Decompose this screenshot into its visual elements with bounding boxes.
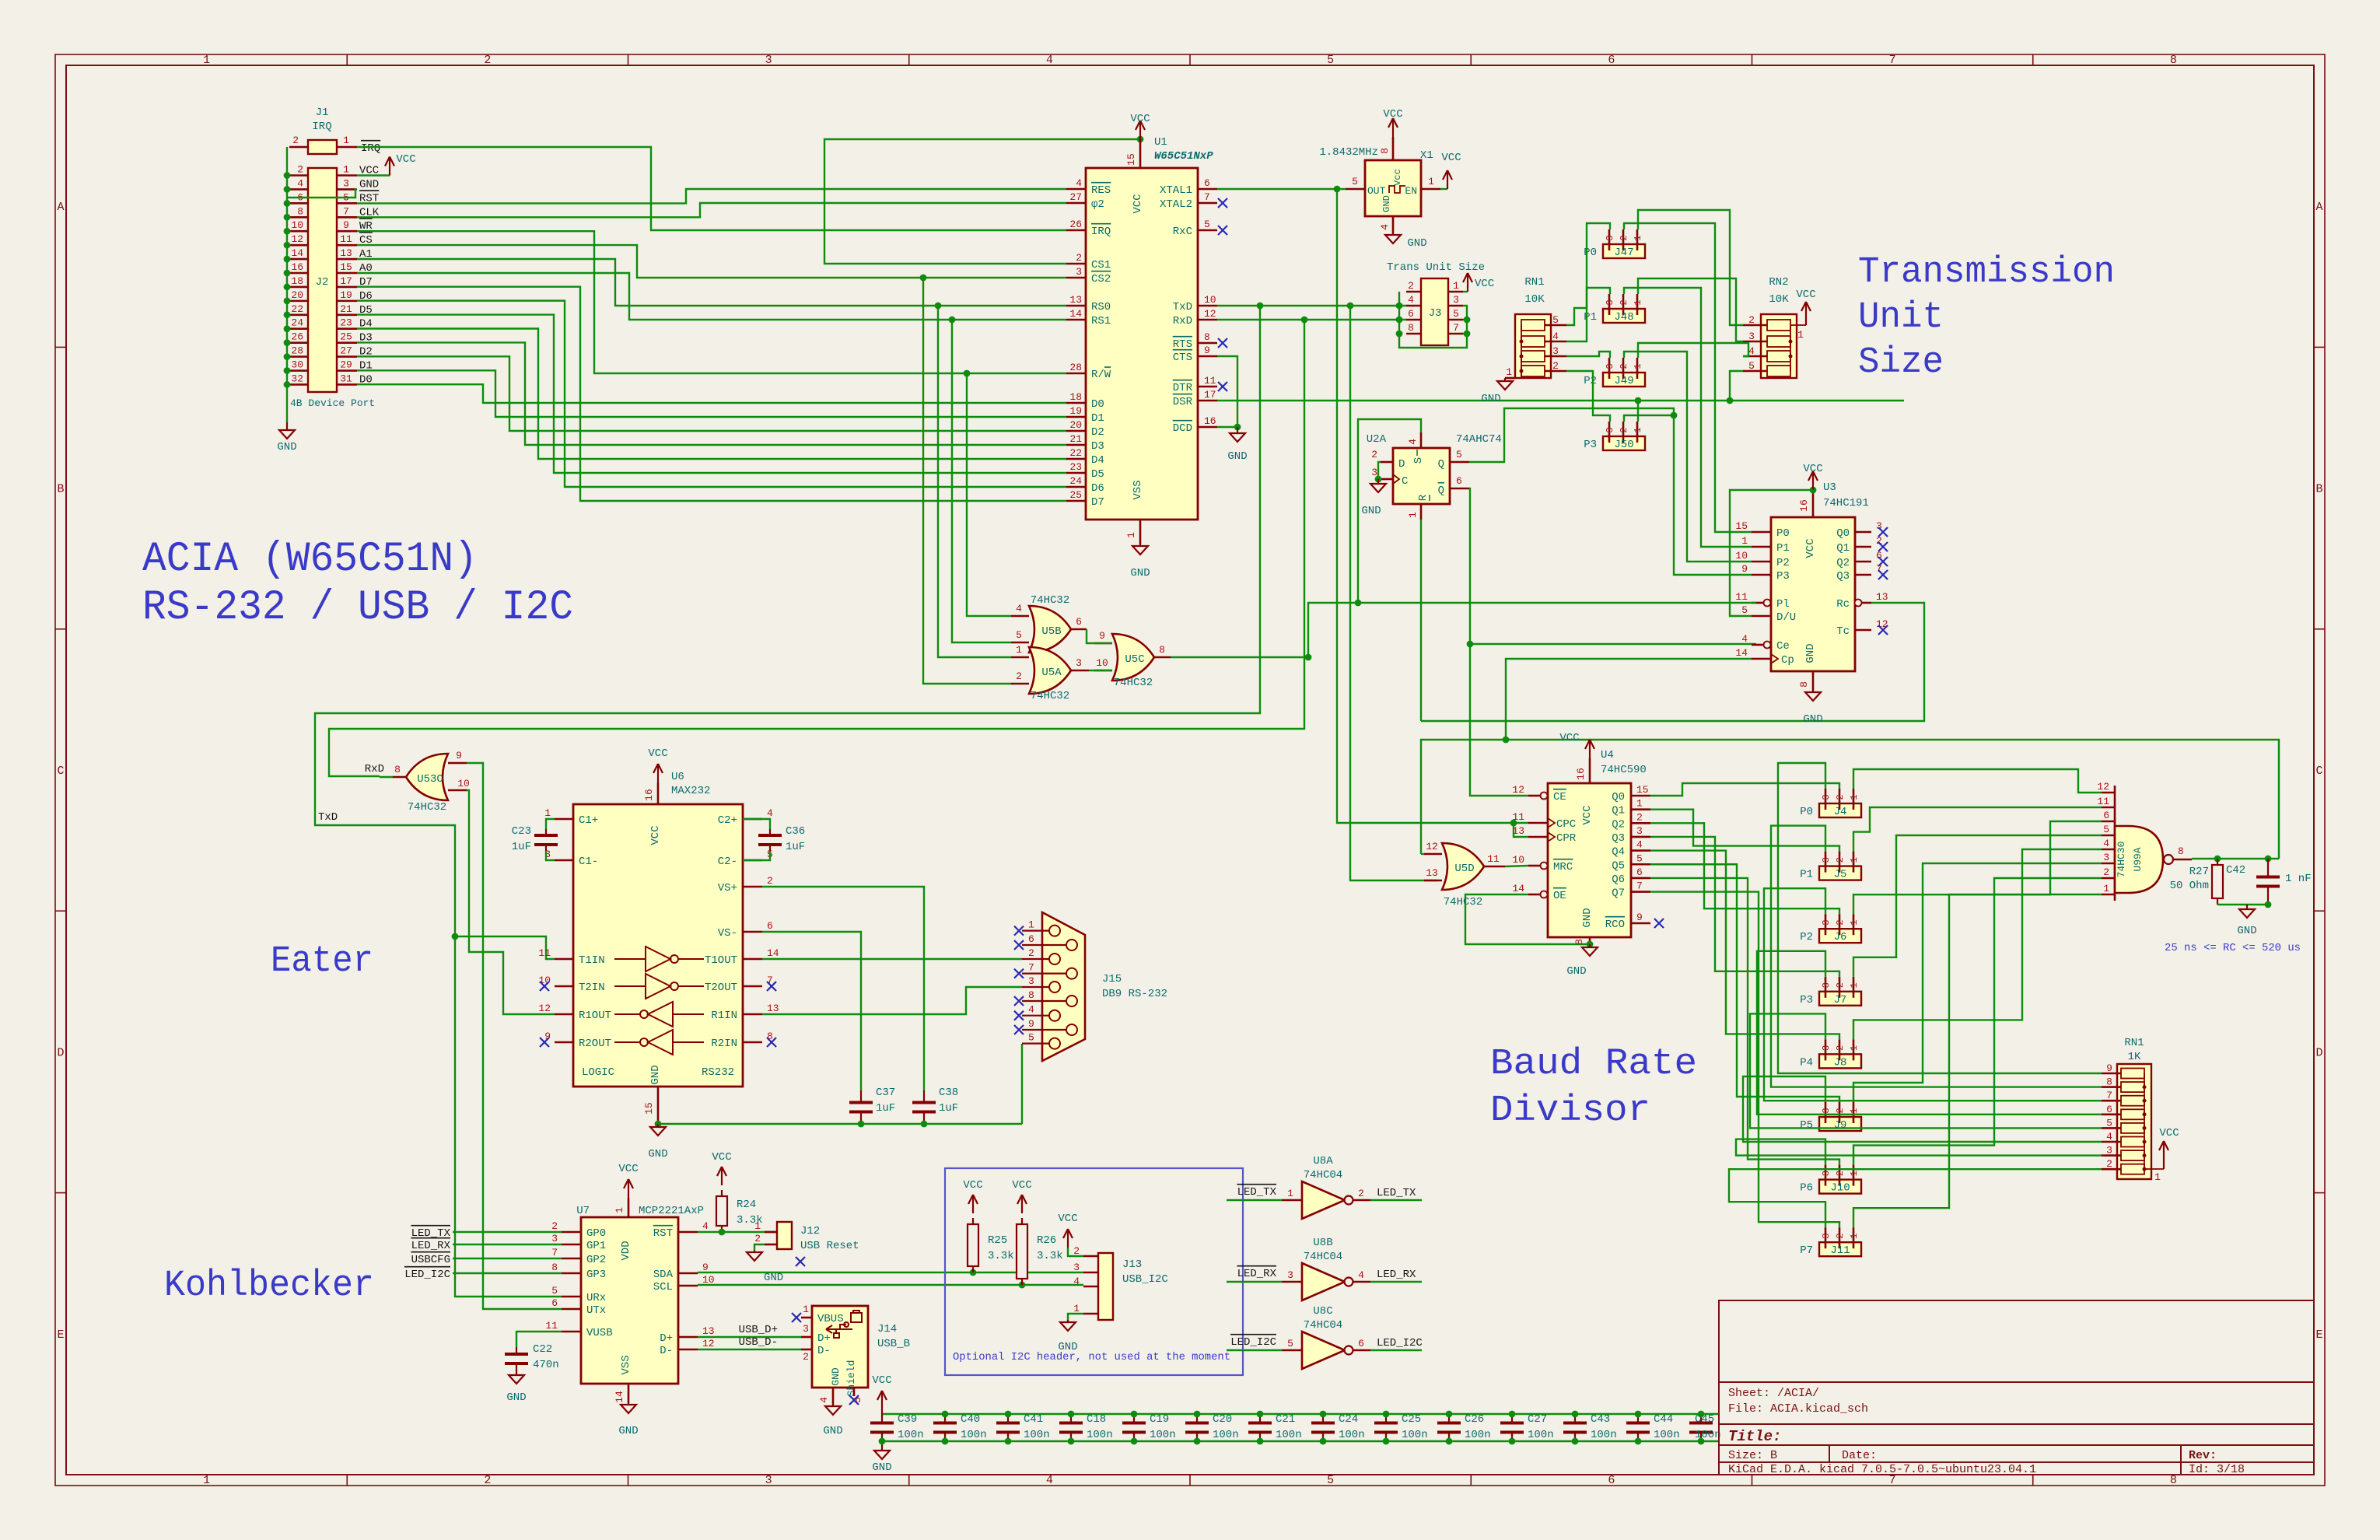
U99A pin8 output (2173, 859, 2192, 861)
svg-text:RN2: RN2 (1769, 276, 1788, 289)
svg-text:26: 26 (1069, 219, 1082, 230)
U5A pin1 (1011, 656, 1029, 659)
U2A pin1 R bottom (1420, 504, 1423, 520)
svg-text:GND: GND (506, 1391, 526, 1404)
svg-text:9: 9 (343, 219, 349, 231)
U7 pin 9 SDA (678, 1272, 698, 1275)
svg-text:1: 1 (803, 1304, 809, 1315)
svg-text:8: 8 (1379, 148, 1391, 154)
svg-text:4: 4 (1407, 439, 1419, 445)
svg-text:1: 1 (1073, 1303, 1080, 1314)
svg-text:J12: J12 (800, 1225, 820, 1237)
U99A pin 5 (2102, 835, 2115, 837)
svg-text:VCC: VCC (1796, 289, 1815, 301)
wire U5C output to U3 Pl (1171, 656, 1308, 658)
U4 pin 13 CPR (1528, 836, 1548, 838)
svg-text:LED_RX: LED_RX (411, 1240, 451, 1252)
wire J11 pin3 to RN1 1K (1729, 1169, 2102, 1227)
wire U53C pin9 from UTx (467, 763, 562, 1309)
U2A Qbar down to U3 Ce and U4 CE (1469, 488, 1528, 796)
RN1 1K pin1 to VCC (2144, 1168, 2164, 1170)
svg-text:7: 7 (343, 205, 349, 217)
svg-text:DCD: DCD (1173, 422, 1192, 435)
svg-text:RS232: RS232 (702, 1066, 734, 1079)
wire RN1 pin3 to J49 pin3 (1566, 352, 1610, 358)
wire J8 pin3 to RN1 1K (1750, 1013, 2102, 1128)
svg-text:Q: Q (1438, 458, 1444, 471)
J2 ground bus wire (left) (286, 147, 288, 422)
U8C output pin 6 (1353, 1349, 1370, 1352)
svg-text:3: 3 (1636, 825, 1643, 837)
wire U4 Q5 to J9 pin2 (1650, 864, 1839, 1102)
svg-text:Q0: Q0 (1836, 527, 1850, 540)
svg-text:C41: C41 (1024, 1413, 1043, 1426)
svg-text:4: 4 (1552, 331, 1559, 342)
wire U3 Ce from Qbar net (1470, 643, 1756, 645)
J2 pin 3 GND (right) (337, 188, 357, 191)
capacitor C21 100n (1259, 1414, 1261, 1423)
wire RST to U1 RES (357, 189, 1066, 203)
svg-text:GND: GND (359, 178, 379, 191)
wire J7 pin1 to U99A input (1853, 835, 2102, 977)
svg-text:11: 11 (545, 1320, 558, 1332)
blue box optional I2C header (945, 1168, 1243, 1375)
svg-text:21: 21 (1069, 433, 1082, 445)
svg-text:LED_I2C: LED_I2C (404, 1269, 450, 1281)
J3 pin 4 (left) (1406, 305, 1421, 307)
svg-text:Size: B: Size: B (1728, 1449, 1777, 1462)
svg-text:J47: J47 (1614, 247, 1633, 259)
jumper J48 P1 (1603, 309, 1645, 323)
U99A pin 3 (2102, 863, 2115, 865)
J15 pin 5 (1022, 1042, 1049, 1044)
svg-text:32: 32 (291, 373, 303, 384)
svg-text:J3: J3 (1429, 307, 1442, 320)
U3 pin 3 Q0 (1855, 531, 1871, 534)
U99A pin 6 (2102, 821, 2115, 823)
svg-text:9: 9 (456, 750, 462, 761)
svg-text:2: 2 (551, 1220, 558, 1232)
svg-text:1: 1 (1849, 920, 1860, 926)
svg-text:4: 4 (1379, 224, 1391, 230)
svg-text:Q2: Q2 (1836, 557, 1850, 569)
svg-text:2: 2 (1619, 427, 1629, 432)
svg-text:100n: 100n (1402, 1429, 1428, 1441)
svg-text:2: 2 (297, 164, 303, 176)
IC U7 MCP2221AxP (581, 1217, 678, 1384)
svg-text:12: 12 (702, 1338, 715, 1349)
svg-text:5: 5 (1287, 1338, 1293, 1349)
capacitor C40 100n (944, 1414, 946, 1423)
svg-text:25: 25 (340, 331, 352, 343)
svg-text:6: 6 (1636, 866, 1643, 878)
U7 pin 5 URx (562, 1296, 581, 1298)
J2 pin 13 A1 (right) (337, 258, 357, 261)
svg-text:P0: P0 (1776, 527, 1790, 540)
svg-text:10: 10 (1512, 854, 1524, 866)
svg-text:15: 15 (1735, 520, 1748, 532)
U4 pin Q2 (1631, 822, 1650, 824)
svg-text:6: 6 (1608, 54, 1615, 67)
wire J47 pin1 to RN2 pin2 (1638, 210, 1743, 325)
J2 pin 4 (left) (289, 188, 308, 191)
svg-text:URx: URx (586, 1292, 606, 1304)
svg-text:3: 3 (1287, 1269, 1293, 1281)
connector J12 USB Reset (777, 1222, 792, 1249)
svg-text:14: 14 (767, 947, 779, 959)
svg-text:3: 3 (1076, 657, 1082, 669)
svg-text:C1+: C1+ (579, 814, 598, 827)
svg-text:Ce: Ce (1776, 640, 1790, 653)
svg-text:VCC: VCC (648, 747, 667, 760)
jumper J47 P0 (1603, 244, 1645, 258)
svg-text:D1: D1 (1091, 412, 1104, 425)
svg-text:1: 1 (1849, 982, 1860, 988)
svg-text:P4: P4 (1800, 1056, 1813, 1069)
wire U5D out to U4 MRC (1505, 866, 1528, 866)
svg-text:11: 11 (1735, 591, 1748, 603)
wire CTS to DCD/GND (1217, 356, 1237, 427)
svg-text:C45: C45 (1695, 1413, 1714, 1426)
svg-text:R26: R26 (1037, 1234, 1056, 1247)
svg-text:1: 1 (1849, 1045, 1860, 1051)
svg-text:D: D (57, 1046, 64, 1059)
svg-text:LED_TX: LED_TX (1377, 1187, 1416, 1199)
svg-text:1uF: 1uF (939, 1102, 958, 1115)
svg-text:8: 8 (2106, 1076, 2112, 1088)
wire U4 Q4 to J8 pin2 (1650, 851, 1839, 1040)
wire J4 pin3 to RN1 1K (1778, 763, 2102, 1073)
svg-text:R: R (1417, 494, 1430, 501)
title block outline (1719, 1300, 2314, 1475)
svg-text:VDD: VDD (620, 1241, 632, 1260)
U4 pin 14 OE (1528, 894, 1541, 896)
svg-text:U5B: U5B (1041, 625, 1061, 638)
svg-text:1: 1 (1506, 366, 1512, 378)
svg-text:2: 2 (1835, 920, 1846, 926)
svg-text:8: 8 (1159, 644, 1165, 656)
svg-text:25 ns <= RC <= 520 us: 25 ns <= RC <= 520 us (2165, 942, 2301, 954)
svg-text:Divisor: Divisor (1490, 1090, 1650, 1132)
svg-text:19: 19 (1069, 405, 1082, 417)
svg-text:1: 1 (2103, 883, 2109, 894)
svg-text:KiCad E.D.A. kicad 7.0.5-7.0.: KiCad E.D.A. kicad 7.0.5-7.0.5~ubuntu23.… (1728, 1463, 2036, 1476)
svg-text:24: 24 (1069, 475, 1082, 487)
counter U4 74HC590 (1548, 783, 1631, 937)
U1 pin 19 D1 (1066, 416, 1086, 418)
J2 pin 31 D0 (right) (337, 383, 357, 386)
U3 GND pin8 (1812, 671, 1815, 691)
svg-text:D3: D3 (1091, 440, 1104, 453)
X1 pin 5 OUT (1346, 188, 1365, 191)
capacitor C38 1uF (923, 1090, 925, 1103)
svg-text:GND: GND (1566, 965, 1586, 978)
svg-text:2: 2 (1835, 1108, 1846, 1113)
svg-text:U8A: U8A (1313, 1155, 1333, 1167)
J15 pin 7 (1022, 972, 1066, 974)
U2A S/R net to Pl wire (1358, 419, 1421, 603)
svg-text:6: 6 (1456, 475, 1462, 487)
svg-text:CS1: CS1 (1091, 259, 1111, 271)
svg-text:3: 3 (1605, 299, 1615, 305)
svg-text:6: 6 (767, 920, 773, 932)
svg-text:VCC: VCC (396, 153, 415, 166)
svg-text:Transmission: Transmission (1858, 252, 2115, 293)
wire U7 RST to J12 (698, 1231, 777, 1233)
svg-text:10: 10 (1735, 550, 1748, 562)
wire J5 pin3 to RN1 1K (1771, 826, 2102, 1087)
svg-text:10: 10 (702, 1274, 715, 1286)
U8B output pin 4 (1353, 1281, 1370, 1283)
R27/C42 ground rail (2217, 904, 2268, 905)
J14 USB icon (826, 1322, 852, 1338)
svg-text:C26: C26 (1465, 1413, 1484, 1426)
svg-text:1K: 1K (2128, 1051, 2141, 1063)
connector J15 DB9 RS-232 (1042, 912, 1085, 1061)
U53C pin9 (448, 762, 467, 765)
svg-text:GND: GND (1381, 195, 1392, 212)
svg-text:Date:: Date: (1842, 1449, 1877, 1462)
svg-text:MCP2221AxP: MCP2221AxP (639, 1205, 704, 1217)
wire clock out net to U5D pin12 and U3 Cp (1421, 853, 1424, 855)
svg-text:12: 12 (1204, 308, 1216, 320)
svg-text:CTS: CTS (1173, 352, 1192, 364)
svg-text:J9: J9 (1834, 1119, 1847, 1132)
J15 pin 2 (1022, 958, 1049, 960)
svg-text:11: 11 (2097, 796, 2109, 807)
svg-text:D7: D7 (1091, 496, 1104, 509)
U3 pin 4 Ce (1752, 644, 1764, 646)
svg-text:Optional I2C header, not used: Optional I2C header, not used at the mom… (953, 1351, 1230, 1363)
svg-text:LED_RX: LED_RX (1237, 1268, 1277, 1280)
svg-text:GP2: GP2 (586, 1254, 606, 1266)
svg-text:2: 2 (1076, 252, 1082, 264)
svg-text:14: 14 (614, 1391, 625, 1403)
svg-text:4: 4 (702, 1220, 709, 1232)
svg-text:C37: C37 (876, 1087, 895, 1099)
svg-text:5: 5 (1748, 360, 1755, 372)
svg-text:E: E (2315, 1328, 2322, 1342)
svg-text:9: 9 (1741, 563, 1748, 575)
svg-text:P2: P2 (1800, 931, 1813, 943)
svg-text:1: 1 (1125, 532, 1137, 538)
svg-text:4: 4 (2106, 1131, 2112, 1143)
U1 pin 28 R/W (1066, 373, 1086, 375)
wire CS to U1 CS2 (357, 245, 1066, 278)
svg-text:OUT: OUT (1367, 185, 1386, 197)
U7 pin 13 D+ (678, 1336, 698, 1339)
wire RxD from U1 pin12 to J3 (1217, 319, 1406, 320)
svg-text:VSS: VSS (620, 1355, 632, 1374)
svg-text:1 nF: 1 nF (2285, 873, 2312, 885)
U1 pin 22 D4 (1066, 458, 1086, 460)
U7 pin 4 RST (678, 1231, 698, 1234)
svg-text:C21: C21 (1276, 1413, 1295, 1426)
svg-text:3: 3 (2103, 852, 2109, 863)
svg-text:USB_D+: USB_D+ (739, 1324, 778, 1336)
wire U99A output to R27/C42 (2192, 858, 2279, 859)
U6 pin 13 R1IN (743, 1013, 762, 1016)
svg-text:B: B (2315, 483, 2322, 496)
U6 VCC pin16 (657, 782, 660, 804)
svg-text:VCC: VCC (1130, 113, 1150, 125)
or-gate U5B 74HC32 (1029, 606, 1071, 653)
svg-text:Q7: Q7 (1612, 887, 1625, 900)
IC U1 W65C51NxP ACIA (1086, 168, 1198, 520)
wire U4 Q6 to J10 pin2 (1650, 878, 1839, 1165)
wire U4 Q3 to J7 pin2 (1650, 837, 1839, 977)
svg-text:CPR: CPR (1556, 832, 1577, 845)
svg-text:USB Reset: USB Reset (800, 1240, 859, 1252)
J2 pin 30 (left) (289, 369, 308, 372)
svg-text:100n: 100n (1339, 1429, 1365, 1441)
svg-text:T1IN: T1IN (579, 954, 605, 967)
wire J9 pin3 to RN1 1K (1743, 1076, 2102, 1142)
svg-text:GP3: GP3 (586, 1269, 606, 1281)
svg-text:GND: GND (764, 1272, 783, 1284)
RN1 pin1 to GND (1521, 371, 1522, 378)
U3 pin 13 Rc (1862, 602, 1871, 604)
U1 pin 24 D6 (1066, 486, 1086, 488)
svg-text:J13: J13 (1122, 1258, 1142, 1271)
svg-text:MAX232: MAX232 (671, 785, 710, 797)
U1 pin 9 CTS (1198, 355, 1217, 358)
capacitor C25 100n (1385, 1414, 1387, 1423)
svg-text:8: 8 (1798, 681, 1810, 688)
J2 pin 26 (left) (289, 341, 308, 344)
svg-text:CS2: CS2 (1091, 273, 1111, 285)
svg-text:12: 12 (1426, 841, 1438, 852)
svg-text:Trans Unit Size: Trans Unit Size (1387, 261, 1485, 274)
svg-text:12: 12 (1512, 784, 1524, 796)
svg-text:3.3k: 3.3k (1037, 1250, 1063, 1262)
svg-text:VCC: VCC (1132, 194, 1144, 213)
svg-text:U8C: U8C (1313, 1305, 1332, 1318)
svg-text:2: 2 (484, 54, 491, 67)
svg-text:4: 4 (2103, 838, 2109, 849)
svg-text:P2: P2 (1584, 375, 1597, 387)
svg-text:C36: C36 (786, 825, 805, 838)
svg-text:VCC: VCC (1581, 805, 1594, 824)
svg-text:3: 3 (1821, 920, 1832, 926)
svg-text:C25: C25 (1402, 1413, 1421, 1426)
svg-text:26: 26 (291, 331, 303, 343)
svg-text:3: 3 (1748, 331, 1755, 342)
svg-text:15: 15 (1636, 784, 1649, 796)
svg-text:U2A: U2A (1367, 433, 1387, 446)
U3 pin 7 Q3 (1855, 574, 1871, 576)
svg-text:23: 23 (340, 317, 352, 329)
U4 GND pin8 and OE wire (1589, 937, 1591, 944)
svg-text:4: 4 (1028, 1004, 1034, 1016)
TxD branch down to U7 URx (455, 936, 562, 1297)
svg-text:Q5: Q5 (1612, 859, 1625, 872)
svg-text:USB_B: USB_B (877, 1338, 910, 1350)
svg-text:22: 22 (291, 303, 303, 315)
svg-text:C: C (57, 765, 64, 778)
wire RS0 net to U5A pin1 (938, 306, 1011, 657)
RxD vertical down to U53C output (329, 320, 1304, 776)
svg-text:LED_I2C: LED_I2C (1230, 1336, 1276, 1349)
svg-text:11: 11 (538, 947, 551, 959)
svg-text:GND: GND (1803, 713, 1822, 726)
svg-text:GND: GND (2237, 925, 2256, 937)
svg-text:100n: 100n (1591, 1429, 1617, 1441)
svg-text:P3: P3 (1776, 570, 1790, 583)
U1 pin 18 D0 (1066, 402, 1086, 404)
svg-text:2: 2 (1835, 982, 1846, 988)
svg-text:2: 2 (1371, 449, 1377, 460)
svg-text:24: 24 (291, 317, 303, 329)
X1 pin 4 GND bottom (1392, 216, 1395, 233)
jumper J5 P1 (1819, 866, 1861, 880)
U7 pin 10 SCL (678, 1285, 698, 1287)
capacitor C36 1uF (743, 819, 770, 829)
J15 pin 1 (1022, 929, 1049, 931)
svg-text:R1IN: R1IN (711, 1010, 737, 1022)
svg-text:VCC: VCC (1475, 278, 1494, 290)
resistor R27 50 Ohm (2217, 859, 2218, 865)
svg-text:U1: U1 (1154, 136, 1167, 149)
svg-text:470n: 470n (533, 1359, 559, 1371)
svg-text:Unit: Unit (1858, 297, 1944, 338)
IC U6 MAX232 (573, 804, 743, 1087)
svg-text:13: 13 (702, 1325, 715, 1337)
svg-text:3: 3 (1605, 363, 1615, 369)
wire U3 VCC to D/U (1730, 490, 1813, 616)
U1 pin 4 RES (1066, 188, 1086, 191)
svg-text:P3: P3 (1584, 439, 1597, 451)
svg-text:P0: P0 (1584, 247, 1597, 259)
wire U7 SDA to J13 (698, 1272, 1083, 1273)
U3 pin 6 Q2 (1855, 561, 1871, 563)
J15 pin 4 (1022, 1015, 1049, 1017)
J2 pin 24 (left) (289, 327, 308, 330)
wire U4 Q2 to J6 pin2 (1650, 823, 1839, 914)
J15 pin 9 (1022, 1029, 1066, 1031)
TxD branch to MAX232 T1IN (455, 936, 555, 959)
svg-text:Rc: Rc (1836, 598, 1850, 611)
U1 pin 27 φ2 (1066, 202, 1086, 205)
svg-text:30: 30 (291, 359, 303, 371)
U4 pin Q4 (1631, 849, 1650, 852)
wire U7 D+ to J14 (698, 1336, 801, 1338)
connector J13 USB_I2C (1098, 1253, 1113, 1320)
U6 pin 6 VS- (743, 931, 762, 933)
svg-text:Rev:: Rev: (2189, 1449, 2217, 1462)
svg-text:C44: C44 (1654, 1413, 1673, 1426)
wire J9 pin1 to U99A input (1853, 863, 2102, 1102)
svg-text:J8: J8 (1834, 1056, 1847, 1069)
RN2 pin1 to VCC (1790, 324, 1806, 326)
svg-text:φ2: φ2 (1091, 198, 1104, 211)
svg-text:1uF: 1uF (786, 841, 805, 853)
U5D pin11 (1484, 866, 1505, 868)
svg-text:UTx: UTx (586, 1304, 606, 1317)
svg-text:1: 1 (1849, 794, 1860, 800)
svg-text:RS0: RS0 (1091, 301, 1111, 313)
U6 pin 10 T2IN (555, 985, 573, 988)
svg-text:3: 3 (1821, 794, 1832, 800)
U5D pin12 (1424, 853, 1442, 856)
svg-text:C1-: C1- (579, 856, 598, 868)
svg-text:VCC: VCC (1058, 1213, 1077, 1225)
svg-text:2: 2 (1748, 314, 1755, 326)
ground symbol for J2 bus (286, 422, 288, 430)
svg-text:P3: P3 (1800, 994, 1813, 1006)
U5C pin10 (1094, 670, 1112, 672)
svg-text:J4: J4 (1834, 806, 1847, 818)
